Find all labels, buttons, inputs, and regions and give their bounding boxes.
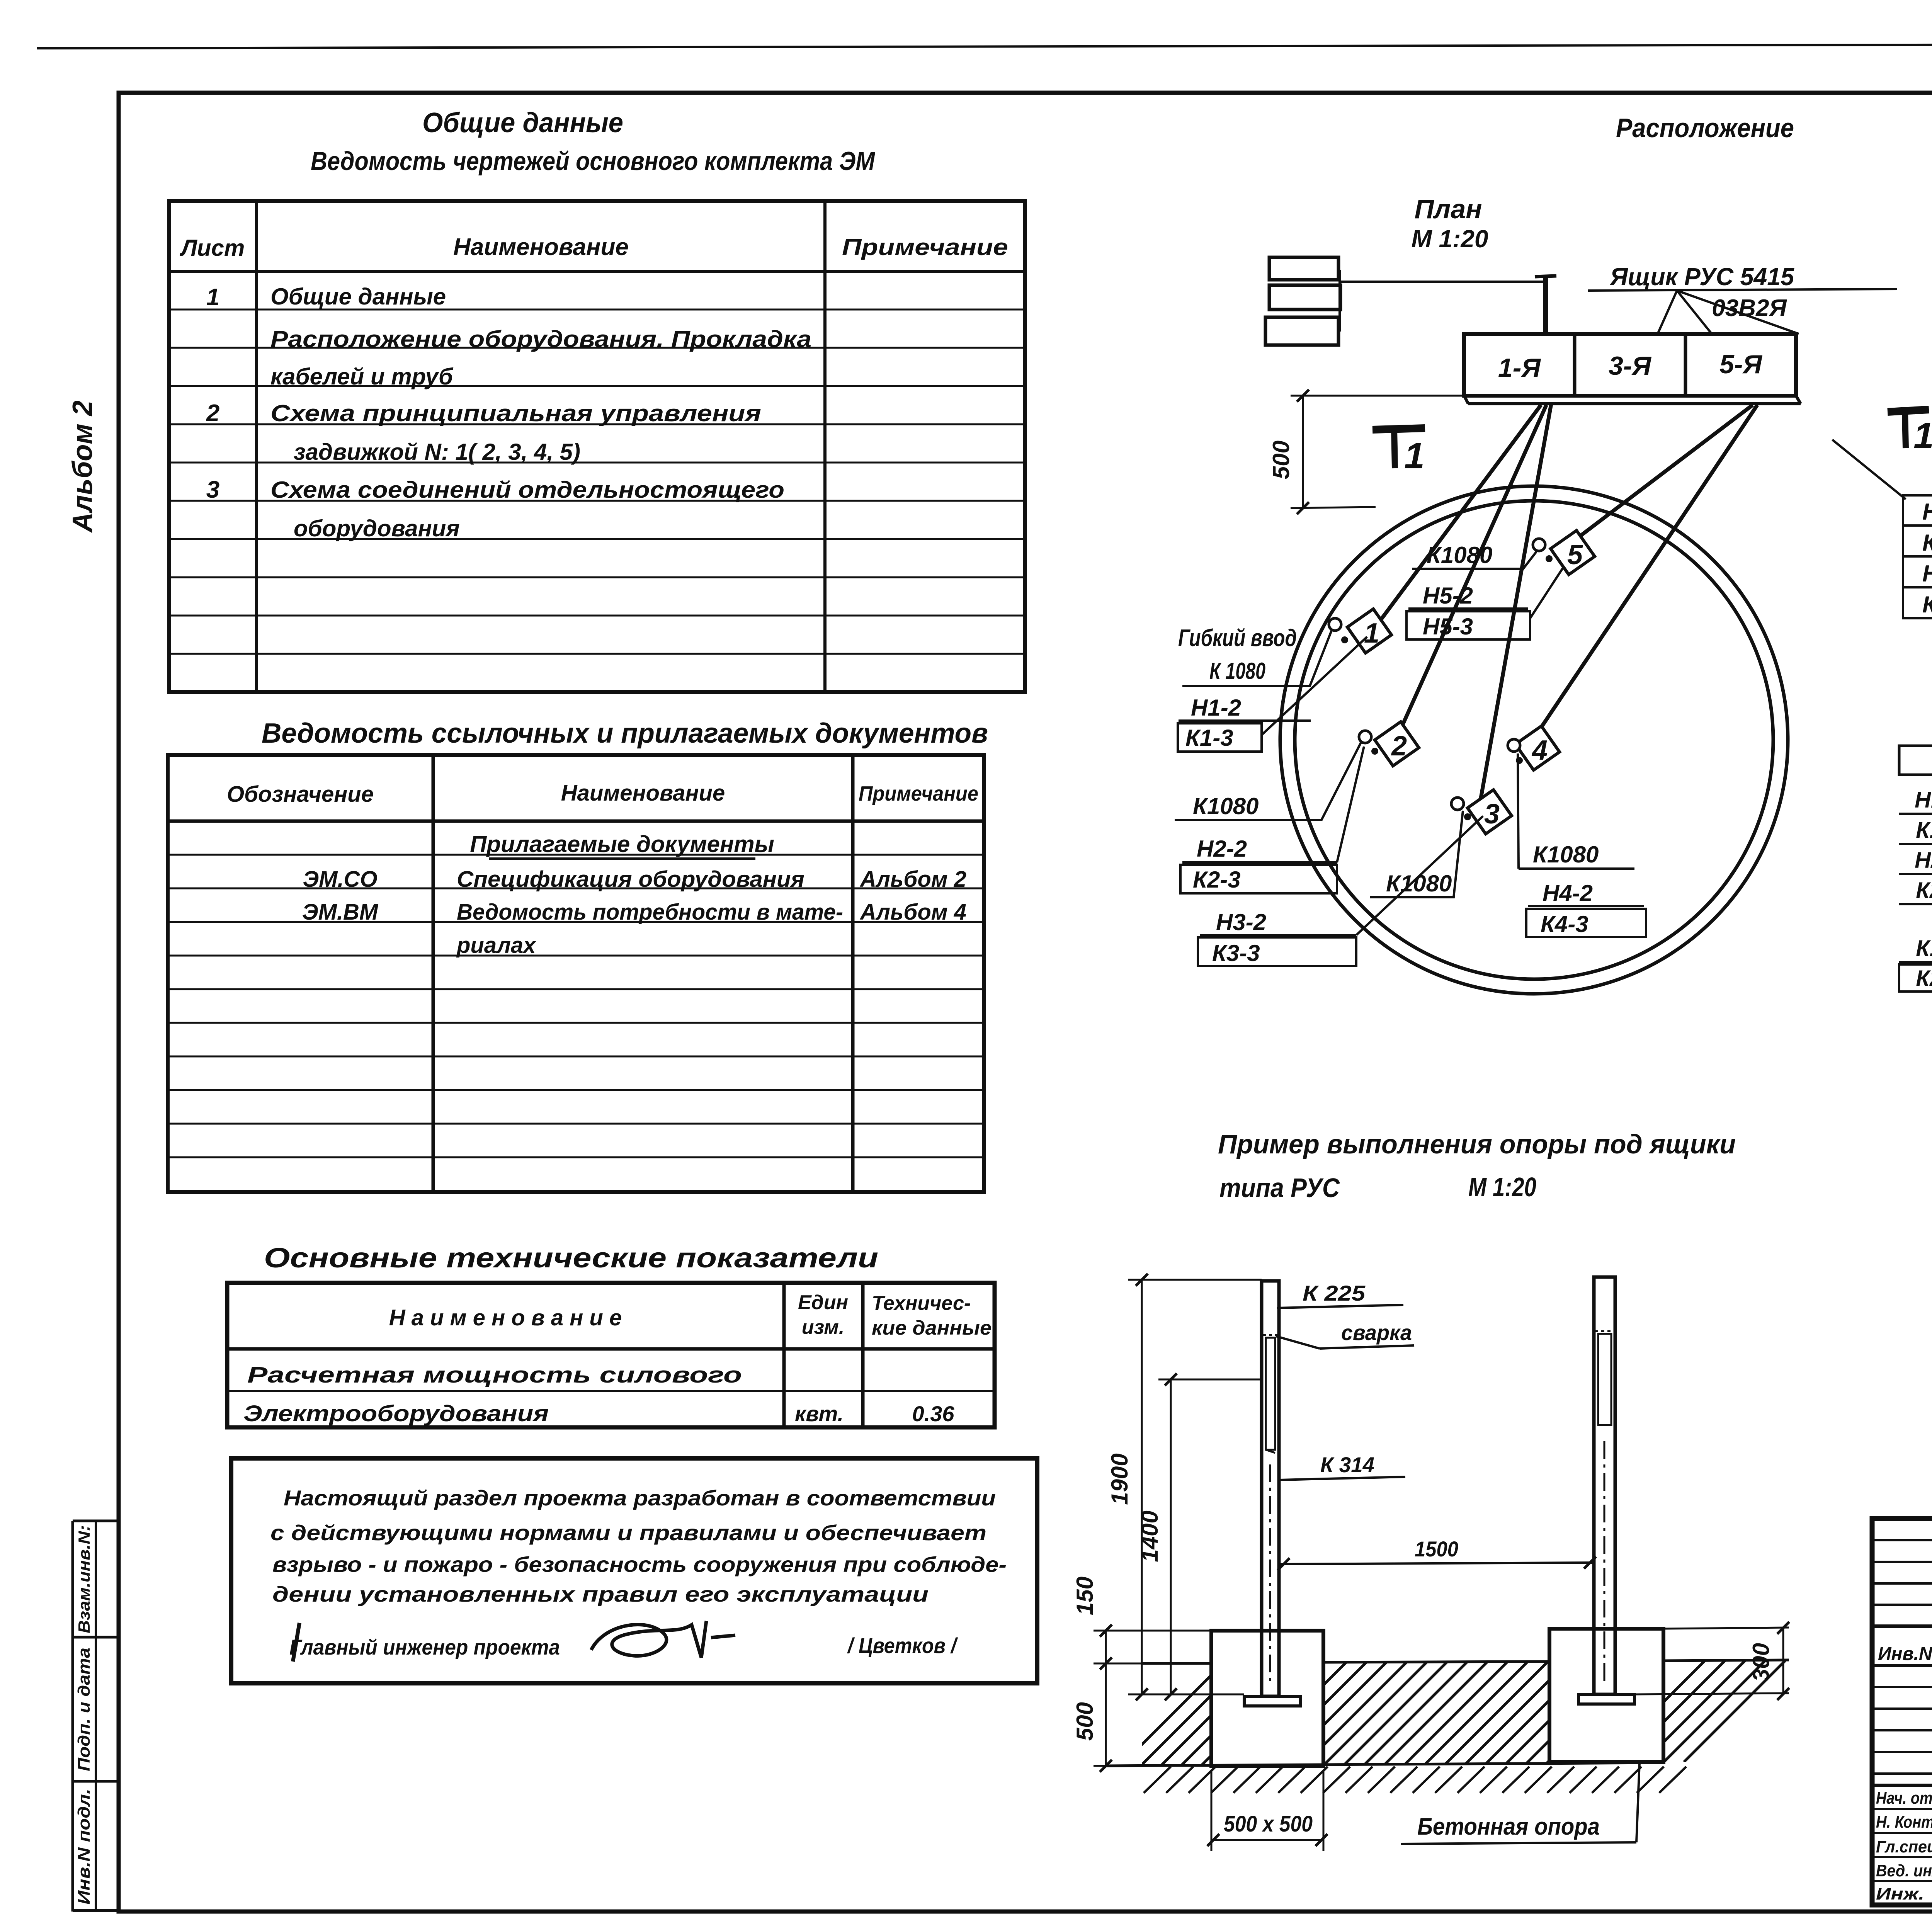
svg-text:Примечание: Примечание — [859, 782, 978, 805]
svg-text:Н3-2: Н3-2 — [1216, 909, 1266, 935]
cable run to box 5 — [1570, 405, 1753, 544]
support ground lines — [1142, 1662, 1211, 1665]
svg-text:Инв.N подл.: Инв.N подл. — [75, 1789, 94, 1905]
sand trap tank outer circle — [1280, 486, 1788, 994]
dimension 500 plan — [1291, 395, 1464, 397]
svg-text:ЭМ.ВМ: ЭМ.ВМ — [302, 900, 379, 925]
svg-text:Схема принципиальная у: Схема принципиальная управления — [270, 400, 761, 426]
svg-text:К 225: К 225 — [1303, 1281, 1366, 1305]
support right foundation — [1549, 1629, 1663, 1762]
svg-text:К1080: К1080 — [1193, 793, 1259, 819]
sand trap tank inner circle — [1295, 501, 1773, 979]
dimension 500x500 — [1211, 1770, 1213, 1851]
cable run to box 1 — [1376, 405, 1541, 627]
svg-text:Альбом 4: Альбом 4 — [859, 900, 966, 925]
support right post — [1594, 1277, 1615, 1694]
svg-text:К3-3: К3-3 — [1212, 940, 1260, 966]
svg-text:К1080: К1080 — [1427, 542, 1492, 568]
svg-text:2: 2 — [1391, 731, 1407, 762]
valve marker 3 diamond — [1468, 790, 1512, 834]
svg-text:Н5-2: Н5-2 — [1423, 583, 1473, 609]
svg-text:Расположение оборудования: Расположение оборудования. Прокладка — [270, 326, 811, 352]
svg-text:Пример выполнения опоры по: Пример выполнения опоры под ящики — [1218, 1129, 1736, 1159]
svg-text:Альбом 2: Альбом 2 — [67, 400, 98, 533]
dimension 500 support — [1094, 1663, 1142, 1665]
title block left top rows — [1872, 1539, 1932, 1541]
svg-text:К1-3: К1-3 — [1916, 818, 1932, 843]
cable run to box 3 — [1481, 405, 1551, 799]
svg-text:типа РУС: типа РУС — [1219, 1173, 1340, 1203]
svg-text:задвижкой N: 1( 2, 3, 4, 5): задвижкой N: 1( 2, 3, 4, 5) — [294, 439, 580, 465]
support left foundation — [1211, 1631, 1323, 1766]
table referenced docs frame — [168, 755, 984, 1192]
svg-text:1: 1 — [1364, 618, 1379, 649]
table tech data columns — [782, 1283, 786, 1427]
svg-text:К1080: К1080 — [1533, 842, 1599, 867]
svg-text:К1-3: К1-3 — [1185, 725, 1233, 751]
svg-text:Примечание: Примечание — [842, 234, 1008, 260]
svg-text:Прилагаемые документы: Прилагаемые документы — [470, 831, 774, 857]
svg-text:кие данные: кие данные — [872, 1317, 992, 1339]
svg-text:500: 500 — [1072, 1702, 1098, 1741]
svg-text:5: 5 — [1567, 539, 1583, 570]
svg-text:3: 3 — [206, 476, 219, 503]
svg-text:дении установленных: дении установленных правил его эксплуата… — [272, 1582, 929, 1606]
svg-text:Вед. инж.: Вед. инж. — [1876, 1861, 1932, 1880]
svg-text:Н а и м е н о в а н и е: Н а и м е н о в а н и е — [389, 1305, 622, 1330]
plan box row 1-Я 3-Я 5-Я — [1464, 334, 1796, 396]
svg-text:Техничес-: Техничес- — [872, 1292, 971, 1315]
table tech data header line — [227, 1347, 995, 1351]
valve marker 2 diamond — [1375, 722, 1419, 766]
title block left mid rows — [1872, 1686, 1932, 1688]
svg-text:1: 1 — [1913, 415, 1932, 456]
table referenced docs columns — [432, 755, 435, 1192]
svg-text:К2-4: К2-4 — [1916, 966, 1932, 991]
svg-text:К1080: К1080 — [1386, 871, 1452, 896]
svg-text:150: 150 — [1072, 1577, 1098, 1615]
svg-text:500: 500 — [1268, 440, 1294, 479]
svg-text:сварка: сварка — [1341, 1320, 1412, 1345]
svg-text:Общие данные: Общие данные — [270, 284, 446, 310]
table sheet list row lines — [169, 309, 1025, 311]
cable marker Т1 left — [1372, 428, 1425, 430]
cable run to box 4 — [1531, 405, 1757, 743]
svg-text:Н2-2: Н2-2 — [1915, 848, 1932, 873]
svg-text:Спецификация оборудования: Спецификация оборудования — [457, 867, 804, 892]
table sheet list header row line — [169, 270, 1025, 273]
svg-text:Схема соединений отдел: Схема соединений отдельностоящего — [270, 477, 784, 503]
svg-text:М 1:20: М 1:20 — [1411, 225, 1488, 253]
svg-text:Ведомость потребности в м: Ведомость потребности в мате- — [457, 900, 843, 925]
svg-text:взрыво - и пожаро - безопасн: взрыво - и пожаро - безопасность сооруже… — [272, 1552, 1007, 1577]
svg-text:Настоящий раздел проект: Настоящий раздел проекта разработан в со… — [284, 1486, 996, 1510]
table sheet list columns — [255, 201, 258, 692]
support left post — [1262, 1281, 1279, 1696]
svg-text:Общие данные: Общие данные — [422, 107, 623, 138]
svg-text:Нач. отд.: Нач. отд. — [1876, 1789, 1932, 1808]
svg-text:Н1-2: Н1-2 — [1915, 787, 1932, 813]
svg-text:К1-4: К1-4 — [1916, 936, 1932, 961]
support right post centerline — [1604, 1441, 1605, 1683]
svg-text:Н. Контр.: Н. Контр. — [1876, 1813, 1932, 1832]
svg-text:Электрооборудования: Электрооборудования — [243, 1401, 549, 1426]
svg-text:3-Я: 3-Я — [1609, 351, 1651, 381]
svg-text:Ведомость ссылочных и прила: Ведомость ссылочных и прилагаемых докуме… — [262, 718, 988, 749]
chief engineer signature — [591, 1621, 706, 1658]
svg-text:4: 4 — [1531, 735, 1548, 766]
svg-text:К4-3: К4-3 — [1541, 911, 1588, 937]
svg-text:К 1080: К 1080 — [1209, 658, 1265, 684]
svg-text:0.36: 0.36 — [912, 1401, 955, 1426]
svg-text:К2-3: К2-3 — [1916, 878, 1932, 903]
svg-text:3: 3 — [1484, 799, 1500, 830]
valve marker 4 diamond — [1515, 726, 1560, 770]
svg-text:К3-2: К3-2 — [1922, 530, 1932, 556]
leader fan to boxes — [1658, 291, 1677, 334]
svg-text:5-Я: 5-Я — [1719, 350, 1762, 379]
svg-text:Гибкий ввод: Гибкий ввод — [1178, 625, 1297, 651]
svg-text:/ Цветков /: / Цветков / — [847, 1633, 958, 1658]
table referenced docs row lines — [168, 854, 984, 856]
svg-text:Альбом 2: Альбом 2 — [859, 867, 966, 892]
note frame — [231, 1458, 1037, 1683]
svg-text:Расчетная мощность си: Расчетная мощность силового — [247, 1362, 742, 1388]
svg-text:1-Я: 1-Я — [1498, 353, 1541, 383]
staff rows — [1872, 1808, 1932, 1810]
left margin stamp boxes — [71, 1521, 74, 1912]
svg-text:Бетонная опора: Бетонная опора — [1417, 1813, 1600, 1840]
valve marker 1 diamond — [1347, 609, 1391, 653]
far left label stack box — [1899, 746, 1932, 775]
valve marker 5 diamond — [1551, 531, 1595, 575]
svg-text:1900: 1900 — [1107, 1453, 1133, 1505]
svg-text:риалах: риалах — [456, 933, 537, 958]
svg-text:Лист: Лист — [180, 235, 245, 261]
dimension 1400 support — [1158, 1379, 1262, 1381]
table referenced docs header line — [168, 820, 984, 823]
svg-text:План: План — [1414, 194, 1482, 224]
support soil hatch — [1121, 1663, 1424, 1766]
support subsoil tick row — [1144, 1767, 1171, 1793]
svg-text:К4-3: К4-3 — [1922, 592, 1932, 617]
support left sleeve К314 — [1266, 1338, 1275, 1450]
title block outer frame — [1872, 1519, 1932, 1905]
svg-text:Главный инженер проекта: Главный инженер проекта — [289, 1635, 560, 1659]
svg-text:К 314: К 314 — [1320, 1452, 1374, 1477]
table tech data mid line — [227, 1390, 995, 1392]
svg-text:500 х 500: 500 х 500 — [1224, 1811, 1313, 1837]
svg-text:Един: Един — [798, 1291, 848, 1314]
svg-text:Инв.N:-: Инв.N:- — [1878, 1644, 1932, 1664]
svg-text:Н5-3: Н5-3 — [1423, 614, 1473, 639]
svg-text:1500: 1500 — [1415, 1537, 1458, 1561]
dimension 150 — [1094, 1630, 1211, 1632]
svg-text:ЭМ.СО: ЭМ.СО — [303, 867, 377, 892]
svg-text:оборудования: оборудования — [294, 515, 460, 541]
svg-text:Основные технические пок: Основные технические показатели — [264, 1243, 878, 1274]
svg-text:квт.: квт. — [795, 1401, 844, 1426]
svg-text:К2-3: К2-3 — [1193, 867, 1241, 893]
svg-text:М 1:20: М 1:20 — [1468, 1172, 1536, 1202]
svg-text:Наименование: Наименование — [561, 781, 725, 806]
svg-text:Н4-2: Н4-2 — [1922, 561, 1932, 587]
svg-text:Инж.: Инж. — [1876, 1884, 1924, 1903]
support pit bottom — [1106, 1763, 1663, 1766]
svg-text:Н2-2: Н2-2 — [1197, 836, 1247, 862]
support left post centerline — [1269, 1464, 1271, 1685]
svg-text:Н1-2: Н1-2 — [1191, 695, 1241, 721]
support right sleeve — [1598, 1334, 1611, 1425]
svg-text:Наименование: Наименование — [453, 234, 629, 260]
connector line stack to pipe — [1338, 270, 1341, 332]
leader to right label stack — [1832, 440, 1906, 499]
cable marker Т1 right — [1888, 410, 1929, 412]
svg-text:с действующими нормами и: с действующими нормами и правилами и обе… — [270, 1520, 986, 1545]
svg-text:Ящик РУС 5415: Ящик РУС 5415 — [1609, 263, 1794, 291]
table tech data frame — [227, 1283, 995, 1427]
leader underline for Ящик — [1588, 289, 1897, 291]
svg-text:1: 1 — [206, 284, 219, 311]
support left flange — [1244, 1696, 1300, 1706]
svg-text:1400: 1400 — [1137, 1510, 1163, 1562]
svg-text:1: 1 — [1404, 435, 1425, 476]
svg-text:Расположение: Расположение — [1616, 113, 1794, 143]
svg-text:2: 2 — [206, 400, 219, 427]
junction boxes stack left — [1269, 257, 1338, 280]
stand pipe in plan — [1543, 276, 1548, 334]
dimension 1900 — [1128, 1279, 1262, 1281]
svg-text:Гл.спец.: Гл.спец. — [1876, 1837, 1932, 1856]
table sheet list frame — [169, 201, 1025, 692]
support right flange — [1578, 1694, 1634, 1704]
svg-text:Н4-2: Н4-2 — [1543, 880, 1593, 906]
sheet top trim line — [37, 43, 1932, 48]
svg-text:кабелей и труб: кабелей и труб — [270, 364, 454, 389]
svg-text:Н3-2: Н3-2 — [1922, 499, 1932, 525]
svg-text:Взам.инв.N:: Взам.инв.N: — [75, 1525, 93, 1633]
svg-text:изм.: изм. — [802, 1316, 845, 1338]
svg-text:Ведомость чертежей основного: Ведомость чертежей основного комплекта Э… — [311, 146, 875, 176]
svg-text:Подп. и дата: Подп. и дата — [75, 1648, 94, 1771]
dimension 300 — [1663, 1628, 1789, 1629]
svg-text:300: 300 — [1748, 1643, 1774, 1682]
svg-text:Обозначение: Обозначение — [227, 782, 374, 807]
cable run to box 2 — [1399, 405, 1546, 733]
